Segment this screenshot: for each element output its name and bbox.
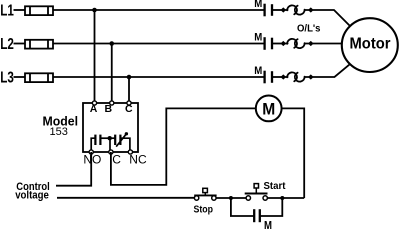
wire L2 lead	[14, 43, 25, 45]
terminal A	[92, 101, 96, 105]
svg-text:L3: L3	[0, 70, 14, 87]
svg-text:M: M	[262, 100, 275, 119]
svg-text:voltage: voltage	[15, 189, 49, 201]
terminal NO	[89, 150, 93, 154]
node junction left of start	[229, 196, 233, 200]
wire tap to terminal A	[94, 10, 96, 101]
terminal NC	[128, 150, 132, 154]
wire OL1 to motor	[313, 10, 351, 27]
svg-text:A: A	[90, 103, 98, 115]
fuse F1	[25, 6, 53, 15]
svg-text:L1: L1	[0, 3, 14, 20]
svg-text:M: M	[264, 218, 272, 229]
terminal C top	[127, 101, 131, 105]
overload OL3	[281, 72, 313, 81]
svg-text:O/L's: O/L's	[297, 23, 321, 35]
wire OL2 to motor	[313, 43, 343, 45]
wire stop to start	[216, 197, 246, 199]
contact M aux	[254, 209, 260, 222]
wire M aux branch left drop	[231, 198, 254, 216]
contact M2 (power pole L2)	[254, 32, 281, 50]
wire tap to terminal C	[128, 77, 130, 101]
wire L1 lead	[14, 9, 25, 11]
svg-text:B: B	[105, 103, 113, 115]
wire L2 to contact M2	[53, 43, 265, 45]
svg-text:Start: Start	[264, 181, 287, 192]
wire tap to terminal B	[111, 44, 113, 102]
fuse F2	[25, 40, 53, 49]
relay contact NO (inside box)	[91, 135, 110, 152]
contact M1 (power pole L1)	[254, 0, 281, 16]
node junction L3 tap	[127, 75, 132, 80]
pushbutton Stop (NC)	[194, 188, 216, 200]
wire L3 to contact M3	[53, 76, 265, 78]
svg-text:NC: NC	[129, 152, 147, 166]
svg-text:NO: NO	[83, 152, 101, 166]
svg-text:Stop: Stop	[194, 205, 214, 216]
svg-text:C: C	[125, 103, 133, 115]
wire OL3 to motor	[313, 64, 351, 77]
Model 153 box	[83, 103, 138, 152]
wire M aux branch right drop	[260, 198, 282, 216]
node junction L1 tap	[92, 8, 97, 13]
svg-text:L2: L2	[0, 36, 14, 53]
svg-text:153: 153	[50, 126, 68, 138]
wire NO to Control	[56, 152, 91, 186]
wire L1 to contact M1	[53, 9, 265, 11]
wire common to C terminal	[109, 138, 111, 152]
pushbutton Start (NO)	[245, 184, 268, 201]
wire coil to right vertical	[282, 108, 305, 198]
svg-text:M: M	[254, 65, 262, 77]
terminal B	[110, 101, 114, 105]
svg-text:C: C	[112, 152, 121, 166]
fuse F3	[25, 73, 53, 82]
wire start to right vertical	[267, 197, 304, 199]
svg-text:M: M	[254, 32, 262, 44]
wire C to coil (left run)	[111, 108, 256, 184]
terminal C bottom	[109, 150, 113, 154]
wire voltage line	[57, 197, 194, 199]
relay contact NC (inside box)	[110, 132, 130, 152]
node junction L2 tap	[109, 41, 114, 46]
contact M3 (power pole L3)	[254, 65, 281, 83]
wire L3 lead	[14, 76, 25, 78]
motor MTR	[342, 18, 398, 72]
overload OL1	[281, 5, 313, 14]
coil M	[256, 96, 282, 122]
svg-text:Motor: Motor	[350, 36, 391, 53]
node common junction	[108, 136, 112, 140]
svg-text:M: M	[254, 0, 262, 10]
overload OL2	[281, 39, 313, 48]
node junction right of start	[280, 196, 284, 200]
